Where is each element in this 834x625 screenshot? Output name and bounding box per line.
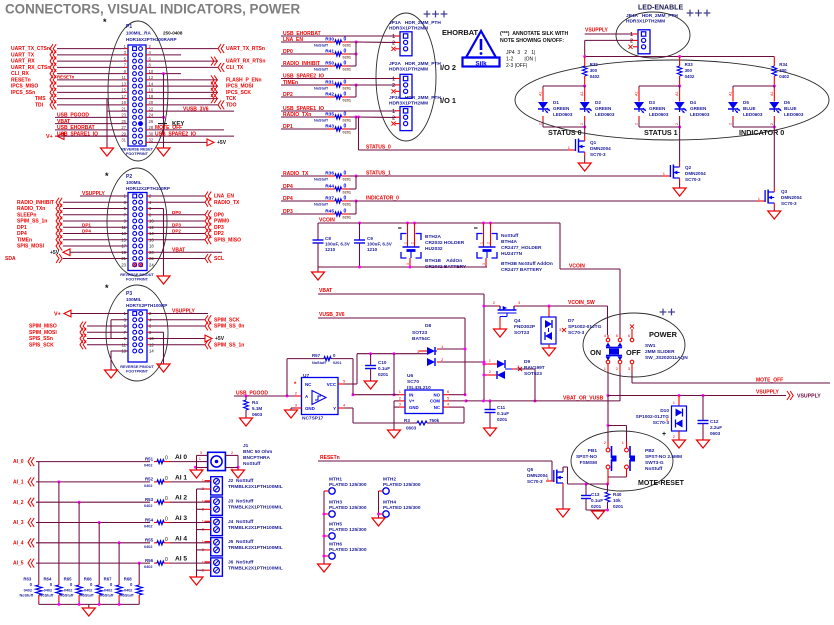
transistor Q4 FND302P xyxy=(493,300,536,337)
J5 text xyxy=(228,539,283,551)
svg-text:AI 3: AI 3 xyxy=(175,515,187,522)
net VSUPPLY rail xyxy=(607,390,822,401)
resistor R52 xyxy=(144,474,211,488)
capacitor C11 xyxy=(484,401,510,436)
battery holder BTH4A xyxy=(474,222,542,268)
svg-text:TRMBLK2X1PTH100MIL: TRMBLK2X1PTH100MIL xyxy=(228,545,283,551)
svg-text:C13: C13 xyxy=(591,492,600,497)
net STATUS_0 wire to Q1 xyxy=(359,117,574,151)
svg-text:0603: 0603 xyxy=(406,426,417,431)
P1 pin23 net USB_PGOOD xyxy=(55,113,128,119)
svg-text:I/O 1: I/O 1 xyxy=(440,96,456,105)
capacitor C13 xyxy=(581,484,603,510)
svg-text:DMN2004: DMN2004 xyxy=(590,146,611,151)
svg-text:0201: 0201 xyxy=(343,44,351,48)
D8 pin2 wire xyxy=(440,361,486,364)
connector J2 xyxy=(197,477,223,495)
J3 text xyxy=(228,499,283,511)
P2 pin19 +5V wire xyxy=(50,249,128,256)
svg-text:SOT523: SOT523 xyxy=(524,371,542,377)
analog switch U6 xyxy=(405,373,443,414)
svg-text:*: * xyxy=(103,17,107,27)
svg-text:NOTE SHOWING ON/OFF:: NOTE SHOWING ON/OFF: xyxy=(500,38,564,44)
svg-text:HDR3X1PTH2MM: HDR3X1PTH2MM xyxy=(626,19,665,25)
P1 pin17 net TMS xyxy=(35,94,128,103)
P2 pin12 net DP3 xyxy=(147,222,224,232)
svg-text:2: 2 xyxy=(392,115,395,121)
svg-text:2: 2 xyxy=(729,123,733,125)
P1 pin24 wire xyxy=(146,116,165,119)
svg-text:LED0603: LED0603 xyxy=(553,112,573,117)
svg-text:Q1: Q1 xyxy=(590,140,597,145)
svg-text:AI 5: AI 5 xyxy=(175,556,187,563)
svg-text:250-0408: 250-0408 xyxy=(163,31,183,36)
svg-text:1: 1 xyxy=(392,77,395,83)
svg-text:+5V: +5V xyxy=(217,140,227,146)
P1 pin29 V+ wire with arrow xyxy=(46,133,128,140)
U6 pin stubs and numbers xyxy=(399,389,450,407)
mounting hole MTH6 xyxy=(324,542,367,560)
MTH left ground bus xyxy=(318,491,331,572)
net VUSB_3V6 wire xyxy=(318,312,465,349)
svg-text:0402: 0402 xyxy=(144,464,152,468)
svg-text:EHORBAT: EHORBAT xyxy=(442,28,478,37)
label STATUS 1 xyxy=(644,128,678,137)
P1 text REVERSE RESET FOOTPRINT xyxy=(121,148,154,157)
ground under P1 right xyxy=(157,148,170,156)
P2 net TIMEn xyxy=(17,235,128,244)
D8 pin1 wire xyxy=(440,348,465,350)
svg-text:UART_TX: UART_TX xyxy=(11,52,35,58)
svg-text:STATUS 0: STATUS 0 xyxy=(548,128,582,137)
svg-text:0201: 0201 xyxy=(343,68,351,72)
svg-text:BTH4A: BTH4A xyxy=(501,239,518,245)
svg-text:LED0603: LED0603 xyxy=(595,112,615,117)
U6 NO wire xyxy=(449,348,467,397)
svg-text:DP3: DP3 xyxy=(172,222,181,227)
P1 pin5 net UART_RX xyxy=(11,57,128,66)
net AI_3 row xyxy=(13,518,150,527)
net AI_0 row xyxy=(13,457,150,466)
U6 V+/GND wires to ground xyxy=(388,401,401,438)
svg-text:NoStuff: NoStuff xyxy=(243,461,261,467)
svg-text:0: 0 xyxy=(344,79,347,85)
resistor R37 row DP5 / INDICATOR_0 xyxy=(281,195,763,206)
svg-text:SOT23: SOT23 xyxy=(412,330,428,336)
svg-text:TIMEn: TIMEn xyxy=(17,237,32,243)
P1 pin2 net UART_TX_RTSn xyxy=(146,44,265,53)
svg-text:3: 3 xyxy=(482,263,486,265)
P2 pin10 net PWM0 xyxy=(147,217,229,226)
svg-text:0402: 0402 xyxy=(590,74,600,79)
asterisk near P1 xyxy=(103,17,107,27)
svg-text:0201: 0201 xyxy=(343,216,351,220)
resistor R51 xyxy=(144,454,197,468)
svg-text:U7: U7 xyxy=(303,373,309,379)
P1 pin8 net CLI_TX xyxy=(146,63,244,72)
svg-text:VCOIN_SW: VCOIN_SW xyxy=(568,300,595,306)
P2 pin4 net RADIO_TX xyxy=(147,198,240,207)
connector P1 body xyxy=(128,45,146,146)
P3 pin numbers xyxy=(121,311,154,354)
resistor R56 xyxy=(144,556,211,570)
ground under P3 left xyxy=(105,370,118,378)
SW1 pin4 pin5 legs xyxy=(608,335,620,338)
svg-text:23: 23 xyxy=(121,262,126,267)
markup ellipse around P2 xyxy=(107,168,167,276)
markup ellipse around JP4A xyxy=(616,12,690,58)
svg-text:0603: 0603 xyxy=(252,412,263,417)
svg-text:UART_RX: UART_RX xyxy=(11,59,35,65)
P2 net SLEEPn xyxy=(17,210,128,219)
svg-text:0201: 0201 xyxy=(343,99,351,103)
svg-text:1210: 1210 xyxy=(367,247,378,252)
P2 pin20 net VBAT xyxy=(147,247,222,253)
svg-text:SPIM_SCK: SPIM_SCK xyxy=(214,317,240,323)
svg-text:JP4A HDR_2MM_PTH: JP4A HDR_2MM_PTH xyxy=(626,13,678,19)
svg-text:INDICATOR 0: INDICATOR 0 xyxy=(739,128,784,137)
svg-text:750k: 750k xyxy=(429,418,440,423)
svg-text:+5V: +5V xyxy=(50,250,60,256)
P3 pin6 net SPIM_SS_0n xyxy=(147,322,244,331)
svg-text:R53: R53 xyxy=(145,497,154,502)
svg-text:NoStuff: NoStuff xyxy=(314,68,328,72)
svg-text:DP1: DP1 xyxy=(82,222,91,227)
svg-text:R40: R40 xyxy=(613,492,622,497)
markup ellipse around P1 xyxy=(108,21,168,161)
label I/O 1 xyxy=(440,96,456,105)
svg-text:UART_RX_CTSn: UART_RX_CTSn xyxy=(11,65,50,71)
J2-J6 ground bus xyxy=(190,489,203,585)
svg-text:0201: 0201 xyxy=(343,191,351,195)
P2 pin6 ground wire xyxy=(147,209,164,277)
svg-text:R3: R3 xyxy=(404,418,410,423)
svg-text:0.1uF: 0.1uF xyxy=(378,366,390,371)
connector J5 xyxy=(197,538,223,556)
svg-text:+: + xyxy=(662,431,666,438)
svg-text:SPIM_SS_0n: SPIM_SS_0n xyxy=(214,324,244,330)
svg-text:UART_TX_CTSn: UART_TX_CTSn xyxy=(11,46,50,52)
svg-text:SC70-3: SC70-3 xyxy=(781,201,797,206)
svg-text:D5: D5 xyxy=(743,100,749,105)
svg-text:BTH2A: BTH2A xyxy=(425,234,442,240)
JP1A pin2 junction wire xyxy=(355,42,357,66)
svg-text:PLATED 125/300: PLATED 125/300 xyxy=(383,505,421,511)
svg-text:VUSB_3V6: VUSB_3V6 xyxy=(183,106,209,112)
Q5 drain wire to rail xyxy=(563,467,609,486)
svg-text:A1: A1 xyxy=(635,91,639,96)
svg-text:RADIO_TX: RADIO_TX xyxy=(214,200,240,206)
P3 net SPIS_SCK xyxy=(29,340,128,349)
J6 text xyxy=(228,559,283,571)
svg-text:0402: 0402 xyxy=(124,589,132,593)
svg-text:1: 1 xyxy=(479,242,483,244)
svg-text:0402: 0402 xyxy=(24,589,32,593)
svg-text:CR2477 BATTERY: CR2477 BATTERY xyxy=(501,267,543,273)
svg-text:AI_1: AI_1 xyxy=(13,480,24,486)
svg-text:Q3: Q3 xyxy=(781,189,788,194)
svg-text:J1: J1 xyxy=(243,443,249,449)
svg-text:PB1: PB1 xyxy=(588,448,598,454)
svg-text:NoStuff: NoStuff xyxy=(120,594,134,598)
svg-text:MTH4: MTH4 xyxy=(383,500,396,506)
P2 pin numbers xyxy=(121,194,154,268)
mounting hole MTH2 xyxy=(379,477,421,495)
svg-text:PLATED 125/300: PLATED 125/300 xyxy=(329,482,367,488)
battery BTH3B note xyxy=(501,261,553,273)
P1 pin10 wire with junction xyxy=(146,72,181,75)
R6x bottom rail and ground xyxy=(39,603,139,616)
label EHORBAT xyxy=(442,28,478,37)
resistor R35 row RADIO_TXn xyxy=(281,111,396,122)
svg-text:C10: C10 xyxy=(378,360,387,365)
svg-text:R4: R4 xyxy=(252,400,258,405)
svg-text:NoStuff: NoStuff xyxy=(314,119,328,123)
svg-text:NO: NO xyxy=(434,393,441,398)
svg-text:SPIS_SSn: SPIS_SSn xyxy=(29,336,53,342)
svg-text:LED0603: LED0603 xyxy=(784,112,804,117)
svg-text:0: 0 xyxy=(165,557,168,563)
U7 Y wire to R3 xyxy=(345,408,418,423)
resistor R43 row DP1 xyxy=(281,117,356,135)
asterisk near P2 xyxy=(105,171,109,181)
svg-text:1210: 1210 xyxy=(325,247,336,252)
svg-text:POWER: POWER xyxy=(649,330,678,339)
svg-text:2: 2 xyxy=(486,242,490,244)
connector J6 xyxy=(197,558,223,576)
svg-text:TMS: TMS xyxy=(35,96,46,102)
P3 pin4 net SPIM_SCK xyxy=(147,315,240,324)
svg-text:RESETn: RESETn xyxy=(320,455,340,461)
svg-text:0402: 0402 xyxy=(685,74,695,79)
svg-text:V+: V+ xyxy=(409,399,415,404)
svg-text:MTH6: MTH6 xyxy=(329,542,342,548)
diode D8 label xyxy=(412,323,431,342)
svg-text:ON: ON xyxy=(590,348,601,357)
svg-text:0201: 0201 xyxy=(343,119,351,123)
markup ellipse around JP1A-JP3A xyxy=(376,13,436,141)
svg-text:100MIL: 100MIL xyxy=(126,180,142,185)
svg-text:3: 3 xyxy=(406,263,410,265)
jumper JP3A header text xyxy=(389,95,441,107)
diode D9 BAV199T xyxy=(486,358,545,401)
P2 net SPIS_MOSI xyxy=(17,242,128,251)
svg-text:TRMBLK2X1PTH100MIL: TRMBLK2X1PTH100MIL xyxy=(228,565,283,571)
svg-text:D9: D9 xyxy=(524,359,530,365)
P2 text REVERSE PINOUT FOOTPRINT xyxy=(120,273,154,282)
svg-text:J3 NoStuff: J3 NoStuff xyxy=(228,499,254,505)
mounting hole MTH3 xyxy=(324,500,367,518)
resistor R4 xyxy=(240,396,263,426)
op-amp buffer U7 xyxy=(302,373,339,422)
svg-text:STATUS 1: STATUS 1 xyxy=(644,128,678,137)
svg-text:0402: 0402 xyxy=(84,589,92,593)
svg-text:GREEN: GREEN xyxy=(649,106,666,111)
Q2 source wire and ground xyxy=(673,182,686,196)
svg-text:SPIS_MOSI: SPIS_MOSI xyxy=(17,244,45,250)
svg-text:DP4: DP4 xyxy=(82,229,91,234)
svg-text:SPIM_MOSI: SPIM_MOSI xyxy=(29,330,57,336)
svg-text:MOTE_OFF: MOTE_OFF xyxy=(155,125,182,131)
LED supply rail xyxy=(583,55,774,58)
P1 pin9 net CLI_RX xyxy=(11,69,128,78)
svg-text:R33: R33 xyxy=(685,62,694,67)
svg-text:AI_5: AI_5 xyxy=(13,561,24,567)
svg-text:Y: Y xyxy=(333,406,336,411)
svg-text:FND302P: FND302P xyxy=(514,324,536,330)
svg-text:SPIM_SS_1n: SPIM_SS_1n xyxy=(17,219,47,225)
svg-text:1-2 |ON |: 1-2 |ON | xyxy=(506,57,536,63)
connector P2 body xyxy=(128,193,147,271)
P1 pin27 net USB_EHORBAT xyxy=(55,125,128,131)
svg-text:VSUPPLY: VSUPPLY xyxy=(585,28,609,34)
svg-text:LNA_EN: LNA_EN xyxy=(214,194,234,200)
svg-text:0402: 0402 xyxy=(144,565,152,569)
svg-text:BNC 50 Ohm: BNC 50 Ohm xyxy=(243,449,272,455)
P2 net DP4 xyxy=(17,229,128,239)
markup ellipse around LEDs xyxy=(515,60,829,140)
P3 pin3 wire xyxy=(111,320,128,339)
svg-text:IPCS_SSn: IPCS_SSn xyxy=(11,90,35,96)
svg-text:300: 300 xyxy=(590,68,598,73)
transistor Q1 xyxy=(568,127,611,157)
svg-text:BAT54C: BAT54C xyxy=(412,336,431,342)
resistor R66 xyxy=(80,577,103,605)
svg-text:UART_RX_RTSn: UART_RX_RTSn xyxy=(226,59,265,65)
svg-text:MTH5: MTH5 xyxy=(329,522,342,528)
svg-text:REVERSE PINOUT: REVERSE PINOUT xyxy=(120,365,154,369)
net RESETn wire xyxy=(318,455,552,481)
VCOIN_SW rail xyxy=(483,300,608,335)
markup ellipse around SW1 xyxy=(583,313,685,377)
svg-text:2: 2 xyxy=(539,123,543,125)
P2 net DP1 xyxy=(17,222,128,232)
P2 pin2 net LNA_EN xyxy=(147,192,234,201)
VCOIN bottom rail xyxy=(318,266,487,269)
svg-text:SPIM_MISO: SPIM_MISO xyxy=(29,324,57,330)
svg-text:R32: R32 xyxy=(590,62,599,67)
svg-text:2MM SLIDER: 2MM SLIDER xyxy=(645,349,675,355)
resistor R42 row DP2 xyxy=(281,85,356,103)
svg-text:FSMSM: FSMSM xyxy=(580,460,597,466)
P1 pin28 net MOTE_OFF xyxy=(146,125,224,131)
Q5 source wire and ground xyxy=(557,487,570,517)
svg-text:D2: D2 xyxy=(595,100,601,105)
U7 VCC wire to rail xyxy=(345,354,358,384)
label MOTE-RESET xyxy=(638,480,685,487)
P1 pin32 +5V arrow xyxy=(146,139,227,146)
resistor R55 xyxy=(144,535,211,549)
P2 net RADIO_INHIBIT xyxy=(17,198,128,207)
transistor Q3 xyxy=(757,127,802,207)
resistor R64 xyxy=(40,577,63,605)
svg-text:SP1002-01JTG: SP1002-01JTG xyxy=(568,324,602,330)
svg-text:V+: V+ xyxy=(54,311,61,317)
svg-text:RADIO_INHIBIT: RADIO_INHIBIT xyxy=(17,200,54,206)
svg-text:D8: D8 xyxy=(425,323,431,329)
svg-text:LED-ENABLE: LED-ENABLE xyxy=(638,5,683,12)
SW1 pin1 leg to VSUPPLY rail xyxy=(607,364,609,396)
jumper JP2A xyxy=(391,74,412,98)
markup ellipse around P3 xyxy=(106,285,168,381)
P1 pin11 net RESETn xyxy=(11,75,128,85)
svg-text:GND: GND xyxy=(409,405,419,410)
svg-text:NoStuff: NoStuff xyxy=(100,594,114,598)
svg-text:PB2: PB2 xyxy=(645,448,655,454)
svg-text:2: 2 xyxy=(392,41,395,47)
svg-text:31: 31 xyxy=(121,138,126,143)
svg-text:2.2uF: 2.2uF xyxy=(710,425,722,430)
svg-text:0402: 0402 xyxy=(144,545,152,549)
svg-text:LED0603: LED0603 xyxy=(690,112,710,117)
svg-text:C9: C9 xyxy=(367,236,373,241)
svg-text:R34: R34 xyxy=(779,62,788,67)
svg-text:IPCS_MOSI: IPCS_MOSI xyxy=(226,84,254,90)
svg-text:SLEEPn: SLEEPn xyxy=(17,212,36,218)
svg-text:1: 1 xyxy=(392,109,395,115)
svg-text:Silk: Silk xyxy=(475,60,487,67)
svg-text:Q4: Q4 xyxy=(514,318,521,324)
svg-text:J2 NoStuff: J2 NoStuff xyxy=(228,478,254,484)
svg-text:26: 26 xyxy=(149,119,154,124)
svg-text:J4 NoStuff: J4 NoStuff xyxy=(228,519,254,525)
svg-text:AI 4: AI 4 xyxy=(175,535,187,542)
svg-text:0: 0 xyxy=(344,36,347,42)
P2 pin22 net SCL xyxy=(147,254,224,263)
capacitor C10 xyxy=(364,354,390,389)
svg-text:U6: U6 xyxy=(407,373,413,379)
svg-text:0: 0 xyxy=(344,208,347,214)
svg-text:RADIO_TXn: RADIO_TXn xyxy=(17,206,45,212)
svg-text:DMN2004: DMN2004 xyxy=(527,473,548,478)
svg-text:2: 2 xyxy=(410,242,414,244)
svg-text:MOTE-RESET: MOTE-RESET xyxy=(638,480,685,487)
svg-text:GREEN: GREEN xyxy=(595,106,612,111)
PB bottoms to rail xyxy=(608,469,627,484)
svg-text:0: 0 xyxy=(344,123,347,129)
resistor R33 xyxy=(677,57,695,87)
title CONNECTORS, VISUAL INDICATORS, POWER xyxy=(5,2,300,17)
svg-text:JP2A HDR_2MM_PTH: JP2A HDR_2MM_PTH xyxy=(389,61,441,67)
svg-text:FLASH_P_ENn: FLASH_P_ENn xyxy=(226,77,262,83)
svg-text:R66: R66 xyxy=(84,577,92,582)
svg-text:D4: D4 xyxy=(690,100,696,105)
svg-text:SOT23: SOT23 xyxy=(514,330,530,336)
svg-text:SWT3-G: SWT3-G xyxy=(645,460,664,466)
svg-text:TRMBLK2X1PTH100MIL: TRMBLK2X1PTH100MIL xyxy=(228,505,283,511)
P1 pin29 net USB_SPARE1_IO xyxy=(55,131,128,137)
svg-text:0: 0 xyxy=(165,537,168,543)
resistor R40 xyxy=(605,484,624,510)
svg-text:GND: GND xyxy=(305,406,315,411)
svg-text:P1: P1 xyxy=(126,24,132,30)
svg-text:AI 0: AI 0 xyxy=(175,454,187,461)
svg-text:DP3: DP3 xyxy=(214,225,224,231)
svg-text:R51: R51 xyxy=(145,456,154,461)
svg-text:HDR3X1PTH2MM: HDR3X1PTH2MM xyxy=(389,101,428,107)
svg-text:DP0: DP0 xyxy=(214,212,224,218)
U6 IN wire from rail xyxy=(352,354,400,397)
P1 pin19 net TDI xyxy=(35,100,128,109)
J2 text xyxy=(228,478,283,490)
svg-text:NC: NC xyxy=(434,405,440,410)
diode D7 SP1002 xyxy=(541,306,602,356)
svg-text:0: 0 xyxy=(165,476,168,482)
P2 pin1 net VSUPPLY xyxy=(80,191,128,197)
battery holder BTH2A xyxy=(398,222,465,268)
svg-text:UART_TX_RTSn: UART_TX_RTSn xyxy=(226,46,265,52)
svg-text:NoStuff: NoStuff xyxy=(314,203,328,207)
